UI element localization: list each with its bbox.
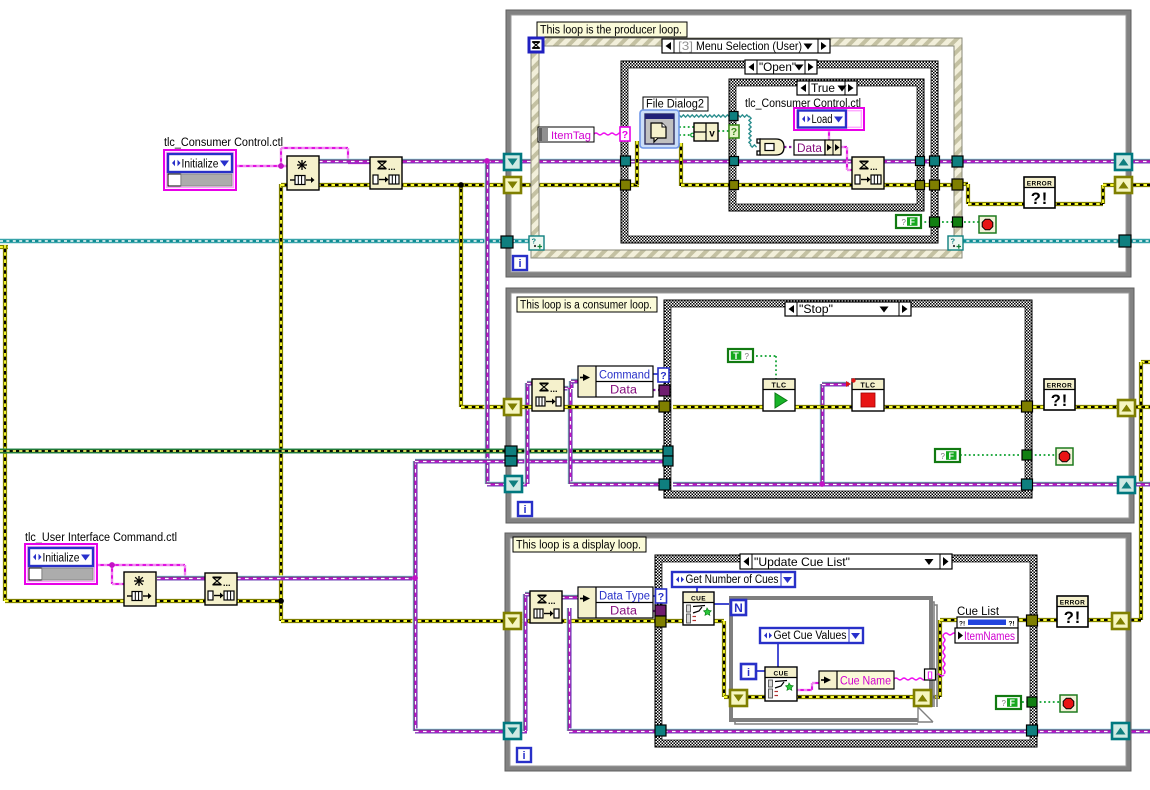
svg-text:F: F [1009, 698, 1015, 708]
shift register: display left queue (teal, down) [504, 723, 521, 739]
iteration terminal i of for loop [741, 664, 756, 679]
wire: event registration refnum (teal dashed) left segment [0, 239, 531, 243]
svg-text:ERROR: ERROR [1060, 600, 1085, 607]
svg-text:Cue Name: Cue Name [840, 676, 891, 688]
wire: consumer error rail y=407 [521, 405, 664, 409]
tunnel: error tunnels on True case [730, 181, 739, 190]
svg-text:v: v [709, 129, 715, 140]
junction: UI cluster split [109, 562, 115, 568]
svg-text:?: ? [660, 370, 666, 382]
svg-text:N: N [734, 601, 743, 615]
wire: Data variant to tunnel [653, 389, 661, 391]
Obtain Queue VI icon (producer) [287, 156, 319, 190]
wire: UI queue refnum line y=578 to junction [157, 576, 417, 580]
case structure Open (checkered) [621, 61, 938, 243]
wire: boolean False to loop stop terminal [920, 221, 980, 223]
enum constant: Get Cue Values [760, 628, 863, 643]
svg-text:"Update Cue List": "Update Cue List" [754, 555, 850, 569]
svg-text:...: ... [388, 162, 396, 172]
svg-text:TLC: TLC [860, 383, 875, 390]
boolean False constant (display) [996, 696, 1021, 709]
wire: queue refnum branch down to consumer SR x=487 [485, 161, 489, 484]
svg-text:"Open": "Open" [759, 60, 796, 74]
Enqueue Message VI icon (UI) [205, 573, 237, 605]
CUE VI icon (get number) [683, 592, 714, 625]
wire: string array from tunnel to ItemNames property [936, 674, 944, 676]
wire: boolean False to display stop terminal [1022, 701, 1061, 703]
wire: error right side of producer to ERROR handler [962, 182, 968, 186]
tunnel: consumer case selector terminal [658, 368, 669, 382]
Or function node [694, 123, 718, 141]
wire: iteration i to CUE vi [756, 670, 766, 672]
tunnel: consumer case left - green array [663, 446, 673, 456]
svg-text:?: ? [622, 129, 628, 141]
tunnel: consumer loop left - green array [505, 446, 517, 456]
wire: CUE value to Bundle Cue Name [797, 689, 812, 691]
svg-text:Initialize: Initialize [43, 553, 80, 565]
svg-text:?: ? [941, 452, 946, 461]
wire: Command enum to case selector [653, 373, 661, 375]
shift register: producer right queue (teal, up) [1115, 154, 1132, 170]
wire: error inside for loop y=697 [744, 695, 918, 699]
wire: error vertical at right edge x=1141 from top edge to display loop [1141, 360, 1150, 364]
shift register: consumer right error (olive, up) [1118, 400, 1135, 416]
svg-text:Get Number of Cues: Get Number of Cues [686, 574, 779, 586]
wire: Data variant to tunnel [653, 610, 657, 612]
svg-text:ERROR: ERROR [1047, 383, 1072, 390]
tunnel: queue + error on event structure right border [952, 156, 963, 167]
wire: UI queue to consumer case tunnel y=461 [415, 459, 664, 463]
svg-text:F: F [948, 451, 954, 461]
svg-text:Menu Selection (User): Menu Selection (User) [696, 39, 802, 53]
for loop inside display case (stacked pages) [731, 598, 938, 728]
svg-text:ItemNames: ItemNames [964, 631, 1015, 643]
svg-text:?: ? [658, 591, 664, 603]
iteration terminal display [517, 748, 531, 762]
ItemTag event data terminal [538, 127, 594, 142]
svg-text:CUE: CUE [774, 671, 789, 678]
svg-text:?!: ?! [1064, 609, 1082, 627]
iteration terminal producer [513, 256, 527, 270]
tunnel: queue wire tunnels on True case [729, 112, 738, 121]
shift register: producer right error (olive, up) [1115, 177, 1132, 193]
svg-text:?!: ?! [959, 621, 965, 628]
tunnel: display case error left [655, 616, 666, 627]
shift register: for loop error right (olive up) [914, 690, 931, 706]
wire: Cue Name string to indexing tunnel (pink squiggle) [894, 678, 925, 680]
wire: bundle output to Enqueue Message [841, 146, 847, 148]
wire: branch up to TLC Stop VI [820, 384, 824, 484]
svg-text:?!: ?! [1009, 621, 1015, 628]
dynamic event terminal right [948, 236, 963, 250]
shift register: display right error (olive, up) [1112, 613, 1129, 629]
Cue List listbox terminal [957, 617, 1018, 628]
wire: dequeue msg cluster to Unbundle [564, 386, 571, 390]
label: display loop comment [513, 537, 646, 552]
wire: Get Cue Values enum drop [777, 643, 779, 668]
wire: queue into display Dequeue [521, 729, 525, 733]
svg-text:?: ? [902, 218, 907, 227]
junction: bottom rail to TLC stop [819, 481, 825, 487]
shift register: consumer right queue (teal, up) [1118, 477, 1135, 493]
Obtain Queue VI icon (UI) [124, 572, 156, 606]
wire: display bottom rail to right edge [664, 729, 1150, 733]
svg-text:Data Type: Data Type [599, 591, 650, 603]
label: consumer loop comment [517, 297, 657, 312]
wire: display dequeue cluster out to Unbundle [561, 595, 579, 599]
shift register: display right queue (teal, up) [1112, 723, 1129, 739]
svg-text:Load: Load [812, 114, 833, 126]
case structure True (checkered) [729, 79, 924, 211]
wire: boolean array (green) long wire y=451 [0, 449, 668, 454]
svg-text:T: T [733, 351, 739, 361]
svg-text:F: F [909, 217, 915, 227]
wire: consumer bottom rail inside case to right edge [673, 482, 1150, 486]
boolean False constant (consumer) [935, 449, 960, 462]
tunnel: consumer case bottom rail left [659, 479, 670, 490]
svg-text:This loop is a consumer loop.: This loop is a consumer loop. [520, 300, 652, 312]
path-to-variant conversion node [757, 139, 784, 155]
svg-text:?!: ?! [1051, 392, 1069, 410]
wire: display queue out down to bottom rail [567, 608, 571, 731]
wire: queue refnum main producer line y=161 [319, 159, 1150, 163]
case selector: "Open" [745, 60, 817, 74]
shift register: display left error (olive, down) [504, 613, 521, 629]
wire: error branch down to consumer loop x=461 [459, 185, 463, 407]
svg-text:ERROR: ERROR [1027, 181, 1052, 188]
wire: CUE vi to N terminal [714, 603, 732, 605]
svg-text:TLC: TLC [771, 383, 786, 390]
wire: ItemTag string squiggle [594, 133, 621, 135]
junction: queue split to consumer SR [484, 158, 490, 164]
svg-text:Command: Command [599, 370, 650, 382]
wire: cluster constant tlc_User Interface Command to Obtain Queue [97, 564, 112, 566]
tunnel: teal on producer left border (event reg) [501, 236, 513, 248]
wire: error vertical trunk x=281 [279, 184, 283, 621]
junction: error at display branch [278, 598, 284, 604]
tunnel: consumer case Data variant [659, 385, 670, 396]
svg-text:?: ? [731, 126, 737, 138]
event structure border (striped) [531, 38, 962, 258]
while loop: display [505, 533, 1131, 771]
shift register: producer left queue (teal, down) [504, 154, 521, 170]
svg-text:Data: Data [610, 385, 638, 397]
junction: cluster to obtain queue [278, 163, 284, 169]
wire: queue in consumer from SR to Dequeue [521, 482, 527, 486]
case selector terminal ? (green) [729, 125, 739, 138]
cluster constant: Initialize (UI command) [25, 544, 97, 584]
wire: Or output to case selector [718, 130, 730, 132]
loop stop condition terminal (display) [1060, 695, 1077, 712]
svg-text:[3]: [3] [678, 39, 693, 53]
tunnel: boolean tunnels for stop wire [930, 217, 940, 227]
svg-text:[]: [] [927, 671, 933, 680]
svg-text:Data: Data [610, 606, 638, 618]
svg-text:?: ? [532, 237, 537, 246]
svg-text:...: ... [548, 596, 556, 606]
File Dialog express VI icon [640, 110, 679, 148]
svg-text:File Dialog2: File Dialog2 [646, 99, 704, 111]
wire: error inside producer Open case via File Dialog [630, 183, 639, 187]
Unbundle By Name: Command / Data [578, 366, 653, 397]
Dequeue Message VI icon (consumer) [532, 379, 564, 411]
event selector: [3] Menu Selection (User) [662, 39, 830, 53]
enum constant: Get Number of Cues [672, 572, 795, 587]
tunnel: teal on producer right border (event reg) [1119, 235, 1131, 247]
File Dialog2 label [643, 97, 708, 111]
wire: event registration refnum (teal dashed) right segment to edge [960, 239, 1150, 243]
case selector: True [797, 81, 857, 95]
dynamic event terminal left [529, 236, 544, 250]
wire: Data Type enum to case selector [653, 595, 657, 597]
Enqueue Message VI icon (left) [370, 157, 402, 189]
loop stop condition terminal (consumer) [1056, 448, 1073, 465]
while loop: consumer [506, 288, 1134, 523]
svg-text:tlc_User Interface Command.ctl: tlc_User Interface Command.ctl [25, 532, 177, 544]
boolean False constant (producer) [896, 215, 921, 228]
cluster constant: Initialize (consumer control) [164, 150, 236, 190]
svg-text:?: ? [745, 352, 750, 361]
svg-text:...: ... [870, 162, 878, 172]
wire: queue out of consumer Dequeue down to bottom rail [568, 389, 572, 484]
wire: file path from File Dialog (teal zigzag) [679, 115, 732, 117]
event structure timeout terminal (hourglass) [529, 38, 543, 52]
enum cluster constant: Load [794, 108, 864, 130]
shift register: producer left error (olive, down) [504, 177, 521, 193]
tunnel: display case selector terminal [656, 589, 667, 603]
shift register: consumer left queue (teal, down) [505, 476, 522, 492]
svg-text:...: ... [550, 384, 558, 394]
tunnel: display case bottom rail left [655, 725, 666, 736]
wire: display error rail y=621 [521, 619, 661, 623]
svg-text:i: i [747, 667, 750, 679]
bundle node: Cue Name [819, 671, 894, 689]
loop stop condition terminal (producer) [979, 216, 996, 233]
TLC Play VI [763, 379, 795, 411]
svg-text:?: ? [1002, 699, 1007, 708]
shift register: consumer left error (olive, down) [504, 399, 521, 415]
wire: UI queue to display loop SR y=731 [415, 729, 527, 733]
svg-text:CUE: CUE [691, 596, 706, 603]
svg-text:tlc_Consumer Control.ctl: tlc_Consumer Control.ctl [164, 137, 283, 149]
shift register: for loop error left (olive down) [730, 690, 747, 706]
svg-text:Cue List: Cue List [957, 606, 1000, 618]
svg-text:i: i [523, 504, 526, 516]
tunnel: consumer case error right [1022, 401, 1033, 412]
Dequeue Message VI icon (display) [530, 591, 562, 623]
svg-text:Get Cue Values: Get Cue Values [774, 630, 847, 642]
Enqueue Message VI icon (producer) [852, 157, 884, 189]
svg-text:i: i [522, 750, 525, 762]
tunnel: error tunnels on Open case [621, 180, 631, 190]
svg-text:True: True [811, 81, 835, 95]
label: producer loop comment [537, 22, 687, 37]
while loop: producer (outer gray frame) [506, 10, 1131, 277]
case selector terminal ? (magenta) [620, 127, 630, 141]
tunnel: consumer case bottom rail right [1022, 479, 1033, 490]
tunnel: consumer case boolean right [1022, 450, 1032, 460]
svg-text:...: ... [223, 578, 231, 588]
iteration terminal consumer [518, 502, 532, 516]
tunnel: display case error right [1027, 615, 1038, 626]
CUE VI icon (get values) [765, 667, 797, 701]
svg-text:This loop is the producer loop: This loop is the producer loop. [540, 25, 682, 37]
simple error handler icon (consumer) [1044, 379, 1075, 410]
case structure Update Cue List (checkered) [655, 555, 1037, 747]
TLC Stop VI [852, 379, 884, 411]
wire: boolean True constant to TLC Play [756, 355, 776, 357]
tunnel: consumer loop left - UI queue [505, 456, 517, 466]
tunnel: display case Data variant [655, 605, 666, 616]
boolean True constant (consumer) [728, 349, 753, 362]
tunnel: queue wire tunnels on Open case [621, 156, 631, 166]
svg-text:Initialize: Initialize [182, 159, 219, 171]
svg-text:?: ? [951, 237, 956, 246]
svg-text:This loop is a display loop.: This loop is a display loop. [516, 540, 641, 552]
ItemNames property node [955, 628, 1018, 643]
tunnel: consumer case error left [659, 401, 670, 412]
wire: error producer feed y=185 [281, 183, 630, 187]
junction: UI queue trunk split [412, 575, 418, 581]
bundle node: Data [794, 140, 841, 155]
tunnel: display case bottom rail right [1027, 725, 1038, 736]
tunnel: for loop indexing tunnel [] [925, 669, 936, 680]
svg-text:ItemTag: ItemTag [551, 130, 591, 142]
wire: Load cluster drop to bundle [828, 129, 830, 141]
wire: error cluster from left edge down to display loop [0, 245, 8, 249]
wire: variant dotted to Data bundle [784, 146, 794, 148]
svg-text:i: i [518, 258, 521, 270]
case selector: "Stop" [785, 302, 911, 316]
junction: error split to consumer [458, 182, 464, 188]
wire: UI queue vertical trunk x=415 [413, 461, 417, 731]
simple error handler icon (display) [1057, 596, 1088, 627]
wire: boolean outputs File Dialog to Or [679, 126, 695, 128]
tunnel: consumer case left - UI queue [663, 456, 673, 466]
simple error handler icon (producer) [1024, 177, 1055, 208]
svg-text:"Stop": "Stop" [799, 302, 833, 316]
case selector: "Update Cue List" [740, 554, 952, 569]
wire: cluster constant tlc_Consumer Control to Obtain Queue [236, 165, 287, 167]
svg-text:?!: ?! [1031, 190, 1049, 208]
wire: Get Number of Cues enum drop [696, 586, 698, 594]
svg-text:Data: Data [797, 143, 823, 155]
case structure Stop (checkered) [664, 300, 1032, 498]
Unbundle By Name: Data Type / Data [578, 587, 653, 618]
N count terminal [731, 600, 746, 615]
tunnel: display case boolean right [1027, 697, 1037, 707]
wire: boolean False to consumer stop terminal [960, 454, 1057, 456]
